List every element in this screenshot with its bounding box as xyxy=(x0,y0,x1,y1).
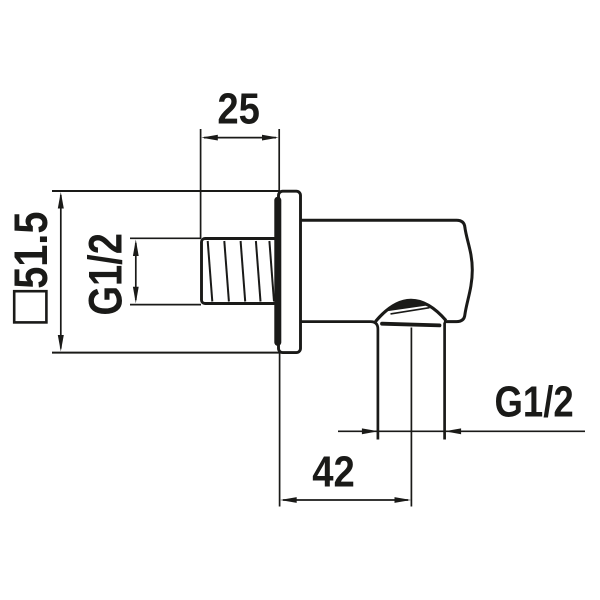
svg-text:42: 42 xyxy=(312,447,355,496)
svg-text:G1/2: G1/2 xyxy=(495,376,574,426)
svg-text:51.5: 51.5 xyxy=(5,212,58,289)
svg-text:25: 25 xyxy=(217,84,260,133)
svg-text:G1/2: G1/2 xyxy=(80,233,133,315)
